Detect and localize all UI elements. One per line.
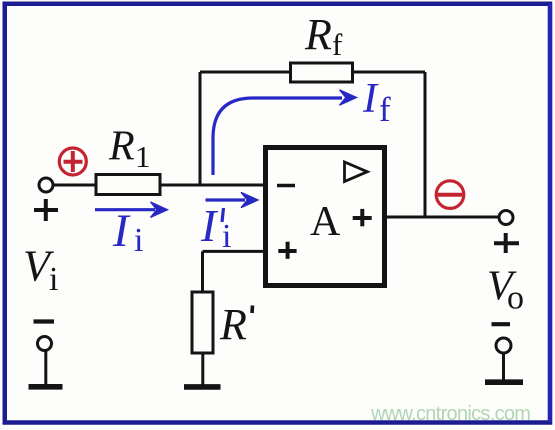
svg-text:R: R — [304, 10, 332, 59]
svg-text:I: I — [200, 200, 219, 251]
svg-text:A: A — [310, 199, 341, 245]
svg-text:o: o — [507, 280, 524, 317]
svg-text:R: R — [219, 300, 247, 349]
svg-text:R: R — [108, 124, 135, 170]
svg-text:I: I — [112, 205, 131, 257]
svg-text:i: i — [222, 218, 231, 255]
svg-text:f: f — [379, 90, 391, 129]
svg-text:www.cntronics.com: www.cntronics.com — [370, 403, 530, 425]
svg-text:i: i — [49, 261, 58, 298]
svg-text:i: i — [134, 222, 143, 259]
svg-text:I: I — [362, 76, 379, 122]
svg-text:f: f — [332, 27, 343, 62]
svg-text:1: 1 — [135, 139, 151, 174]
